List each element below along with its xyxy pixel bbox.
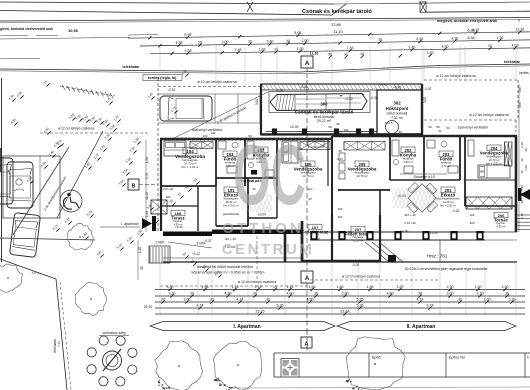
svg-text:10: 10 bbox=[360, 52, 364, 56]
svg-text:Csónak és kerékpár tároló: Csónak és kerékpár tároló bbox=[295, 110, 354, 115]
svg-text:210 + 30: 210 + 30 bbox=[404, 213, 416, 217]
svg-text:6,30: 6,30 bbox=[416, 37, 423, 41]
room 203 Furdo bbox=[427, 140, 458, 173]
terrace bottom edge bbox=[163, 232, 517, 262]
svg-text:OC: OC bbox=[233, 127, 306, 223]
svg-text:2,40: 2,40 bbox=[266, 39, 273, 43]
svg-text:+0,90: +0,90 bbox=[393, 86, 401, 90]
svg-text:▾: ▾ bbox=[340, 93, 342, 98]
svg-text:50: 50 bbox=[438, 129, 442, 133]
svg-text:-0,32: -0,32 bbox=[168, 88, 175, 92]
II apartman entry arrow right bbox=[518, 188, 530, 201]
svg-text:22,86: 22,86 bbox=[331, 23, 341, 27]
svg-text:B: B bbox=[132, 184, 136, 190]
svg-text:5,26: 5,26 bbox=[357, 304, 364, 308]
svg-text:Hőközpont: Hőközpont bbox=[386, 106, 409, 111]
svg-text:20: 20 bbox=[198, 41, 202, 45]
floor tiles left etkezo bbox=[241, 194, 277, 212]
svg-text:szelvényi ventilátor: szelvényi ventilátor bbox=[458, 126, 489, 130]
svg-text:kőzárna acél korlát m = 0,95m: kőzárna acél korlát m = 0,95m és m = 0,7… bbox=[192, 271, 265, 275]
watermark OC logo bbox=[233, 127, 306, 223]
svg-text:I. apartman: I. apartman bbox=[121, 222, 138, 226]
svg-text:30: 30 bbox=[43, 79, 48, 84]
room 105 Vendegszoba bbox=[282, 141, 324, 178]
footing black rect bbox=[388, 255, 396, 262]
tree 4 bottom bbox=[213, 341, 262, 390]
room 202 Konyha bbox=[392, 140, 417, 173]
svg-text:302: 302 bbox=[393, 101, 401, 106]
planter X right bbox=[466, 197, 512, 209]
interior walls left apartment bbox=[161, 139, 277, 231]
title block table bbox=[274, 353, 530, 377]
road band top bbox=[0, 2, 530, 15]
svg-text:Schœdel á 18: Schœdel á 18 bbox=[413, 175, 434, 179]
svg-text:30: 30 bbox=[505, 292, 509, 296]
room 106 Terasz bbox=[171, 210, 185, 226]
svg-text:3,00: 3,00 bbox=[221, 40, 228, 44]
svg-text:6,38: 6,38 bbox=[468, 36, 475, 40]
svg-text:30,98: 30,98 bbox=[68, 29, 78, 33]
tree 1 bbox=[68, 223, 94, 250]
svg-text:bm = 2,81 m: bm = 2,81 m bbox=[440, 203, 456, 207]
svg-text:30: 30 bbox=[286, 39, 290, 43]
svg-text:2,10 +30: 2,10 +30 bbox=[404, 221, 416, 225]
logo square bbox=[281, 359, 299, 378]
svg-text:100: 100 bbox=[336, 131, 341, 135]
band II apartman bbox=[337, 322, 516, 331]
fence segment left edge bbox=[0, 148, 2, 172]
svg-text:58: 58 bbox=[336, 122, 340, 126]
svg-text:58: 58 bbox=[328, 125, 332, 129]
west fence line bbox=[1, 78, 3, 262]
table right apt bbox=[399, 175, 444, 220]
svg-text:ø 12 cm lefolyó csatorna: ø 12 cm lefolyó csatorna bbox=[469, 113, 508, 117]
dashed vertical west bbox=[157, 78, 159, 232]
svg-text:210 +30: 210 +30 bbox=[163, 187, 174, 191]
section marker A bottom bbox=[301, 271, 313, 283]
svg-text:4,93 m²: 4,93 m² bbox=[403, 160, 413, 164]
svg-text:190: 190 bbox=[344, 128, 349, 132]
svg-text:4,74: 4,74 bbox=[427, 304, 434, 308]
svg-text:300: 300 bbox=[470, 221, 475, 225]
band I apartman bbox=[150, 322, 335, 331]
svg-text:1,65: 1,65 bbox=[427, 51, 434, 55]
svg-text:ø 12 cm lefolyó csatorna: ø 12 cm lefolyó csatorna bbox=[58, 127, 94, 131]
room 201 Etkezo bbox=[437, 187, 460, 207]
storage bottom columns bbox=[266, 129, 377, 135]
faint bottom line bbox=[230, 387, 530, 388]
svg-text:A: A bbox=[305, 61, 310, 67]
section marker A bottom2 bbox=[301, 337, 312, 348]
svg-text:II. Apartman: II. Apartman bbox=[407, 324, 436, 330]
svg-text:1,50: 1,50 bbox=[145, 157, 149, 163]
svg-text:25,10: 25,10 bbox=[144, 305, 153, 309]
svg-text:bm = 3,01 m: bm = 3,01 m bbox=[182, 165, 199, 169]
svg-text:4,80: 4,80 bbox=[387, 292, 394, 296]
svg-text:15: 15 bbox=[273, 285, 277, 289]
svg-text:-0,32: -0,32 bbox=[345, 97, 353, 101]
svg-text:h: h bbox=[527, 356, 529, 360]
svg-text:11,10: 11,10 bbox=[515, 27, 524, 31]
svg-text:30: 30 bbox=[266, 298, 270, 302]
svg-text:11,10: 11,10 bbox=[333, 30, 342, 34]
svg-text:30: 30 bbox=[169, 198, 174, 203]
svg-text:1,96: 1,96 bbox=[202, 285, 209, 289]
svg-text:11,23: 11,23 bbox=[145, 192, 149, 200]
retaining wall black bbox=[163, 230, 302, 237]
svg-text:30: 30 bbox=[177, 191, 182, 196]
svg-text:Építés hel: Építés hel bbox=[449, 355, 465, 360]
svg-text:3,00: 3,00 bbox=[184, 298, 191, 302]
svg-text:4,80: 4,80 bbox=[225, 292, 232, 296]
svg-text:29,21 m²: 29,21 m² bbox=[317, 119, 332, 123]
boat hatched bbox=[269, 92, 370, 113]
svg-text:30: 30 bbox=[253, 292, 257, 296]
svg-text:-0,30: -0,30 bbox=[370, 96, 378, 100]
svg-text:glévő, burkolat vízelvezetett: glévő, burkolat vízelvezetett árok bbox=[0, 27, 53, 31]
svg-text:2,20: 2,20 bbox=[397, 285, 404, 289]
svg-text:Csónak és kerékpár tároló: Csónak és kerékpár tároló bbox=[302, 9, 373, 15]
svg-text:2,10: 2,10 bbox=[337, 157, 343, 161]
witness lines bottom bbox=[159, 264, 161, 316]
svg-text:2,48%: 2,48% bbox=[155, 241, 164, 245]
car far left partial bbox=[0, 158, 13, 204]
svg-text:szelvényi ventilátor: szelvényi ventilátor bbox=[192, 128, 223, 132]
svg-text:ø 12 cm lefolyó csatorna: ø 12 cm lefolyó csatorna bbox=[197, 80, 236, 84]
svg-text:6,99: 6,99 bbox=[184, 33, 191, 37]
svg-text:+0,12: +0,12 bbox=[192, 252, 200, 256]
entrance steps bbox=[149, 209, 459, 267]
gutter dashed top bbox=[158, 86, 262, 88]
apartment divider double wall bbox=[327, 139, 329, 186]
room 103 Furdo bbox=[218, 141, 238, 173]
ramp diagonals bbox=[372, 242, 396, 262]
svg-text:4,80: 4,80 bbox=[307, 298, 314, 302]
tree 5 bottom right bbox=[346, 337, 405, 390]
dimension row 4 bbox=[329, 55, 332, 58]
section marker B bbox=[128, 179, 139, 190]
svg-text:30: 30 bbox=[524, 148, 528, 152]
room 104 Vendegszoba bbox=[164, 141, 205, 169]
svg-text:4,58: 4,58 bbox=[185, 49, 192, 53]
svg-text:pm 90: pm 90 bbox=[343, 230, 352, 234]
svg-text:30: 30 bbox=[520, 200, 524, 204]
svg-text:58: 58 bbox=[350, 133, 354, 137]
band right segment bbox=[426, 11, 530, 12]
interior walls right apartment bbox=[332, 136, 516, 231]
svg-text:1,45: 1,45 bbox=[409, 45, 416, 49]
svg-text:Építő:: Építő: bbox=[372, 355, 381, 360]
svg-text:100: 100 bbox=[203, 134, 208, 138]
dimension row 2 bbox=[140, 40, 530, 46]
parking lot outline bbox=[3, 156, 60, 218]
svg-text:4,74: 4,74 bbox=[197, 304, 204, 308]
svg-text:-0,02: -0,02 bbox=[352, 263, 359, 267]
section line A bbox=[306, 88, 308, 270]
svg-text:1,40: 1,40 bbox=[475, 285, 482, 289]
svg-text:4,0 J: 4,0 J bbox=[31, 271, 39, 276]
svg-text:30: 30 bbox=[248, 40, 252, 44]
svg-text:5,70: 5,70 bbox=[145, 173, 149, 179]
terrace pillar strip bbox=[310, 231, 485, 241]
svg-text:23,16: 23,16 bbox=[256, 310, 265, 314]
svg-text:1,65: 1,65 bbox=[259, 48, 266, 52]
svg-text:4,14: 4,14 bbox=[237, 298, 244, 302]
svg-text:300: 300 bbox=[518, 102, 522, 107]
svg-text:1,40: 1,40 bbox=[138, 247, 142, 253]
svg-text:2,30: 2,30 bbox=[477, 292, 484, 296]
property diagonal bbox=[0, 259, 56, 279]
svg-text:A: A bbox=[305, 342, 309, 348]
svg-text:23,6A: 23,6A bbox=[340, 310, 350, 314]
svg-text:4,74: 4,74 bbox=[417, 298, 424, 302]
svg-text:100: 100 bbox=[338, 207, 343, 211]
svg-text:telekhatár: telekhatár bbox=[123, 65, 141, 69]
svg-text:ø 12 cm lefolyó csatorna: ø 12 cm lefolyó csatorna bbox=[238, 280, 276, 284]
svg-text:telekhatár: telekhatár bbox=[504, 60, 521, 64]
svg-text:100: 100 bbox=[470, 213, 475, 217]
floor tiles right etkezo bbox=[390, 188, 442, 208]
svg-text:100: 100 bbox=[518, 87, 522, 92]
room 207 Fedett terasz bbox=[340, 215, 380, 262]
svg-text:pm 90: pm 90 bbox=[400, 229, 409, 233]
svg-text:4,38: 4,38 bbox=[451, 36, 458, 40]
svg-text:1,66: 1,66 bbox=[309, 285, 316, 289]
svg-text:15: 15 bbox=[274, 47, 278, 51]
svg-text:3,00: 3,00 bbox=[423, 97, 427, 103]
svg-text:2,30: 2,30 bbox=[447, 285, 454, 289]
svg-text:30,0/28,0 cm vezhetően pillér: 30,0/28,0 cm vezhetően pillér ragasztott… bbox=[405, 267, 488, 271]
car vertical 2 tilted bbox=[10, 213, 41, 258]
svg-text:1,90: 1,90 bbox=[520, 185, 524, 191]
svg-text:4,80: 4,80 bbox=[287, 292, 294, 296]
svg-text:30: 30 bbox=[314, 292, 318, 296]
dimension row 3 bbox=[150, 48, 530, 54]
svg-text:I. Apartman: I. Apartman bbox=[233, 324, 260, 330]
bottom dim row 1 bbox=[155, 289, 525, 291]
svg-text:30: 30 bbox=[418, 292, 422, 296]
svg-text:kerítés (tégla, fa): kerítés (tégla, fa) bbox=[148, 76, 177, 80]
svg-text:15: 15 bbox=[344, 52, 348, 56]
svg-text:13,70 m²: 13,70 m² bbox=[356, 174, 367, 178]
svg-text:7,41: 7,41 bbox=[57, 341, 61, 347]
svg-text:7,65: 7,65 bbox=[347, 46, 354, 50]
svg-text:300: 300 bbox=[321, 102, 329, 107]
svg-text:8,08: 8,08 bbox=[294, 31, 301, 35]
svg-text:3,30: 3,30 bbox=[509, 298, 516, 302]
svg-text:műkő burkolat: műkő burkolat bbox=[387, 112, 408, 116]
svg-text:6,30: 6,30 bbox=[472, 28, 479, 32]
svg-text:30: 30 bbox=[338, 149, 342, 153]
svg-text:1,65: 1,65 bbox=[337, 285, 344, 289]
main building outer walls bbox=[160, 136, 517, 232]
svg-text:1,15: 1,15 bbox=[287, 285, 294, 289]
svg-text:30: 30 bbox=[161, 298, 165, 302]
svg-text:6: 6 bbox=[518, 19, 520, 23]
svg-text:▾: ▾ bbox=[362, 92, 364, 97]
svg-text:2,10: 2,10 bbox=[520, 213, 524, 219]
svg-text:50: 50 bbox=[446, 126, 450, 130]
bottom dim row 2 bbox=[155, 295, 525, 297]
svg-text:30: 30 bbox=[190, 258, 195, 263]
svg-text:kerítés: kerítés bbox=[519, 71, 529, 75]
bottom dim row 4 bbox=[155, 307, 525, 309]
bush left edge bbox=[0, 264, 22, 293]
svg-text:15: 15 bbox=[488, 44, 492, 48]
car vertical 1 bbox=[7, 162, 33, 208]
svg-text:3,30: 3,30 bbox=[169, 292, 176, 296]
room 102 Konyha bbox=[247, 141, 274, 177]
svg-text:+0,30: +0,30 bbox=[430, 231, 438, 235]
steps right edge bbox=[517, 214, 530, 216]
svg-text:2,15: 2,15 bbox=[255, 285, 262, 289]
svg-text:58: 58 bbox=[358, 130, 362, 134]
svg-text:1,30: 1,30 bbox=[297, 47, 304, 51]
wardrobe X panels bbox=[344, 142, 385, 151]
parking car horizontal bbox=[160, 96, 212, 121]
svg-text:30: 30 bbox=[308, 197, 312, 201]
room 205 Vendegszoba bbox=[339, 153, 377, 179]
svg-text:A: A bbox=[305, 276, 310, 282]
svg-text:7,45: 7,45 bbox=[235, 48, 242, 52]
svg-text:1,15: 1,15 bbox=[232, 285, 239, 289]
svg-text:ø 12 cm lefolyó csatorna: ø 12 cm lefolyó csatorna bbox=[342, 275, 380, 279]
svg-text:17,5: 17,5 bbox=[380, 83, 386, 87]
room 206 Tornac bbox=[494, 212, 509, 228]
svg-text:-0,30: -0,30 bbox=[300, 85, 307, 89]
room 204 Vendegszoba bbox=[468, 140, 510, 178]
svg-text:4,50: 4,50 bbox=[442, 45, 449, 49]
svg-text:190: 190 bbox=[211, 131, 216, 135]
svg-text:meglévő, burkolat elhelyezett: meglévő, burkolat elhelyezett árok bbox=[437, 19, 498, 23]
svg-text:50: 50 bbox=[428, 125, 432, 129]
svg-text:1,00: 1,00 bbox=[524, 165, 528, 171]
room 107 Fedett terasz bbox=[285, 215, 340, 262]
accessible parking diagonal bbox=[57, 131, 103, 218]
svg-text:1,30: 1,30 bbox=[496, 36, 503, 40]
boat dock ring bbox=[87, 336, 137, 386]
svg-text:7,31 m²: 7,31 m² bbox=[391, 116, 404, 120]
svg-text:1,00: 1,00 bbox=[301, 39, 308, 43]
svg-text:3,00: 3,00 bbox=[342, 292, 349, 296]
svg-text:30: 30 bbox=[140, 266, 144, 270]
svg-text:-0,37: -0,37 bbox=[204, 239, 211, 243]
svg-text:2 db akadálymentes parkoló: 2 db akadálymentes parkoló bbox=[43, 175, 68, 211]
svg-text:5,26: 5,26 bbox=[357, 298, 364, 302]
svg-text:3,30: 3,30 bbox=[502, 285, 509, 289]
svg-text:2,10: 2,10 bbox=[520, 142, 524, 148]
svg-text:ø 12 cm lefolyó csatorna: ø 12 cm lefolyó csatorna bbox=[436, 74, 475, 78]
fence hatch bbox=[62, 85, 65, 90]
svg-text:30: 30 bbox=[458, 298, 462, 302]
svg-text:Hrsz.: 761: Hrsz.: 761 bbox=[427, 254, 448, 259]
svg-text:4,38: 4,38 bbox=[175, 41, 182, 45]
tree 3 bottom bbox=[155, 341, 203, 390]
bottom dim row 5 bbox=[155, 313, 525, 315]
svg-text:11,10: 11,10 bbox=[310, 52, 319, 56]
witness lines top bbox=[159, 46, 161, 82]
svg-text:210: 210 bbox=[308, 187, 313, 191]
svg-text:-0,30: -0,30 bbox=[276, 89, 283, 93]
svg-text:1,95: 1,95 bbox=[367, 285, 374, 289]
parking bay lines bbox=[158, 93, 262, 95]
svg-text:172,5: 172,5 bbox=[385, 121, 393, 125]
svg-text:4,50 m²: 4,50 m² bbox=[497, 224, 506, 228]
svg-text:30: 30 bbox=[190, 292, 194, 296]
svg-text:30: 30 bbox=[520, 158, 524, 162]
svg-text:-0,02: -0,02 bbox=[424, 87, 431, 91]
svg-text:4,58: 4,58 bbox=[512, 44, 519, 48]
hall walls bbox=[276, 186, 278, 218]
road line upper bbox=[0, 18, 530, 22]
wheelchair parking bbox=[60, 190, 82, 212]
svg-text:30: 30 bbox=[182, 251, 187, 256]
dimension row 1 bbox=[128, 32, 530, 38]
I apartman entry arrow bbox=[100, 216, 156, 231]
svg-text:1,40: 1,40 bbox=[145, 211, 149, 217]
svg-text:+0,30: +0,30 bbox=[175, 225, 183, 229]
svg-text:3,00: 3,00 bbox=[447, 292, 454, 296]
storage building outline bbox=[261, 84, 422, 135]
svg-text:90: 90 bbox=[398, 130, 402, 134]
band cross mark bbox=[247, 2, 253, 12]
svg-text:30: 30 bbox=[378, 38, 382, 42]
svg-text:-0,02: -0,02 bbox=[452, 209, 459, 213]
svg-text:csónakos stég: csónakos stég bbox=[103, 331, 126, 335]
svg-text:100: 100 bbox=[178, 232, 183, 236]
bottom dim row 3 bbox=[155, 301, 525, 303]
black fixture hall bbox=[251, 170, 257, 175]
svg-text:300: 300 bbox=[338, 215, 343, 219]
room 101 Etkezo bbox=[223, 187, 240, 216]
svg-text:90: 90 bbox=[328, 52, 332, 56]
svg-text:30: 30 bbox=[193, 177, 198, 182]
svg-text:CENTRUM: CENTRUM bbox=[222, 241, 315, 258]
room 302 hokozpont bbox=[377, 86, 422, 135]
planter X left bbox=[151, 200, 167, 214]
property vertical low bbox=[56, 279, 67, 390]
svg-text:OTTHON: OTTHON bbox=[222, 220, 303, 237]
telekhatar line bbox=[0, 64, 530, 72]
svg-text:100: 100 bbox=[166, 195, 171, 199]
svg-text:3,00: 3,00 bbox=[255, 99, 259, 105]
section marker A top bbox=[301, 56, 313, 68]
tree 2 bbox=[75, 282, 107, 316]
svg-text:2,30: 2,30 bbox=[484, 298, 491, 302]
svg-text:5,26: 5,26 bbox=[277, 304, 284, 308]
svg-text:3,30: 3,30 bbox=[167, 285, 174, 289]
